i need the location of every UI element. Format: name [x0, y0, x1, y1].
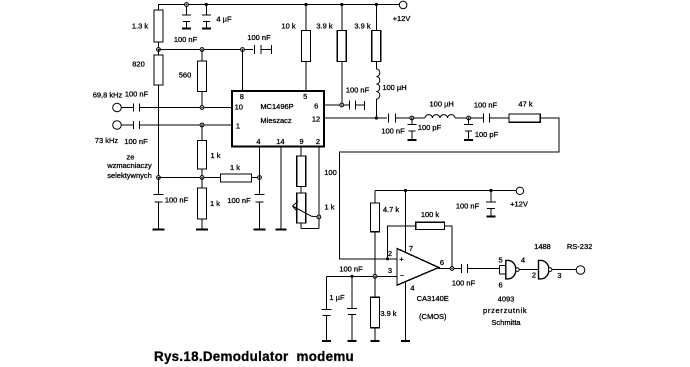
capacitor 100nF node B right to ground	[259, 178, 261, 195]
resistor R 100k feedback	[388, 226, 416, 259]
capacitor 100nF series to 47k	[471, 117, 484, 119]
svg-text:4: 4	[256, 137, 260, 146]
svg-text:100 nF: 100 nF	[381, 126, 405, 135]
svg-text:MC1496P: MC1496P	[260, 102, 293, 111]
svg-text:1 k: 1 k	[210, 151, 220, 160]
svg-text:820: 820	[132, 60, 145, 69]
wire top +12V rail	[159, 5, 400, 50]
svg-text:8: 8	[240, 92, 244, 101]
svg-text:100 nF: 100 nF	[339, 265, 363, 274]
svg-text:14: 14	[276, 137, 284, 146]
svg-text:2: 2	[316, 137, 320, 146]
svg-text:4093: 4093	[498, 294, 515, 303]
capacitor 100nF supply to ground	[490, 191, 492, 203]
terminal input 69.8 kHz	[113, 103, 122, 112]
svg-text:RS-232: RS-232	[567, 242, 592, 251]
svg-text:4: 4	[410, 284, 414, 293]
junction node A top-left	[157, 48, 161, 52]
wire opamp output	[439, 268, 461, 270]
resistor R 820	[158, 50, 160, 56]
resistor R 3.9k first	[340, 3, 343, 6]
capacitor 100nF minus to ground	[351, 276, 353, 308]
wire input 1 to pin 10	[140, 107, 232, 109]
wire pin 12 row	[324, 117, 387, 119]
svg-text:6: 6	[440, 258, 444, 267]
wire node B row	[159, 177, 221, 179]
svg-text:Mieszacz: Mieszacz	[260, 116, 292, 125]
terminal input 73 kHz	[113, 121, 122, 130]
resistor R 1.3k	[154, 10, 163, 42]
junction on top rail left	[185, 3, 189, 7]
wire 47k to opamp + input	[340, 118, 560, 259]
svg-text:1.3 k: 1.3 k	[132, 22, 149, 31]
wire node A to pin8	[242, 50, 244, 92]
svg-text:100 nF: 100 nF	[452, 279, 476, 288]
resistor R 560	[201, 50, 203, 62]
junction node B mid	[200, 176, 204, 180]
svg-text:1: 1	[236, 122, 240, 131]
inductor L 100uH horizontal	[414, 117, 425, 119]
svg-text:4: 4	[521, 256, 525, 265]
capacitor 100nF series pin12	[388, 114, 390, 123]
wire pin 7 down	[405, 191, 407, 253]
wire pin 4 down	[259, 147, 261, 178]
junction node B right	[258, 176, 262, 180]
svg-text:73 kHz: 73 kHz	[95, 136, 119, 145]
op-amp U1 MC1496P box	[232, 91, 324, 147]
svg-text:100 nF: 100 nF	[456, 202, 480, 211]
svg-text:100 nF: 100 nF	[174, 35, 198, 44]
ground under pin 4	[401, 340, 410, 342]
svg-text:10: 10	[235, 103, 243, 112]
wire gate2 to RS232 terminal	[552, 269, 576, 271]
svg-text:wzmacniaczy: wzmacniaczy	[106, 161, 152, 170]
gate 4093 Schmitt NAND	[506, 260, 516, 279]
wire pin 6 row	[324, 104, 349, 106]
capacitor 100nF pin6 to ground	[349, 101, 351, 110]
svg-text:100 µH: 100 µH	[382, 83, 406, 92]
svg-text:4 µF: 4 µF	[216, 15, 232, 24]
svg-text:7: 7	[409, 244, 413, 253]
svg-text:1 k: 1 k	[210, 199, 220, 208]
terminal +12V top	[399, 1, 407, 9]
svg-text:5: 5	[499, 256, 503, 265]
resistor R 10k	[304, 3, 307, 6]
junction 4.7k 3.9k minus	[373, 274, 377, 278]
svg-text:100 nF: 100 nF	[346, 85, 370, 94]
junction wiper to pin2	[317, 215, 321, 219]
junction pin6 3.9k	[340, 103, 344, 107]
junction pin12 inductor	[375, 116, 378, 119]
junction feedback on + input	[386, 257, 389, 260]
svg-text:selektywnych: selektywnych	[107, 171, 152, 180]
svg-text:100 pF: 100 pF	[418, 123, 442, 132]
potentiometer P 1k	[297, 193, 306, 223]
svg-text:+: +	[399, 255, 404, 264]
svg-text:6: 6	[499, 281, 503, 290]
wire +12V rail 2	[375, 190, 516, 192]
svg-text:5: 5	[303, 92, 307, 101]
junction 1k to input 2	[200, 123, 204, 127]
capacitor 100pF second to ground	[468, 118, 470, 125]
junction rail2 pin7	[404, 189, 407, 192]
svg-text:−: −	[400, 271, 405, 280]
svg-text:100 nF: 100 nF	[247, 33, 271, 42]
svg-text:3: 3	[388, 266, 392, 275]
resistor R 4.7k	[374, 191, 376, 204]
svg-text:100 nF: 100 nF	[227, 196, 251, 205]
junction node B left	[157, 176, 161, 180]
resistor R 1k lower	[201, 178, 203, 189]
capacitor 100nF node A to ground	[241, 48, 245, 52]
junction on top rail 2	[205, 3, 208, 6]
wire minus input row	[326, 275, 396, 277]
svg-text:6: 6	[314, 102, 318, 111]
svg-text:1 k: 1 k	[230, 163, 240, 172]
junction 100nF minus	[350, 275, 353, 278]
svg-text:3.9 k: 3.9 k	[354, 22, 371, 31]
svg-text:100 k: 100 k	[421, 210, 440, 219]
svg-text:100 nF: 100 nF	[124, 137, 148, 146]
wire opamp pin 4 to ground	[404, 282, 406, 341]
svg-text:10 k: 10 k	[281, 22, 295, 31]
svg-text:12: 12	[312, 115, 320, 124]
capacitor 100nF input 2	[121, 124, 133, 126]
svg-text:(CMOS): (CMOS)	[419, 312, 447, 321]
junction filter node 2	[467, 116, 471, 120]
svg-text:560: 560	[179, 71, 192, 80]
junction 560 to input 1	[200, 106, 204, 110]
wire node A row	[159, 49, 254, 51]
svg-text:3.9 k: 3.9 k	[380, 309, 397, 318]
svg-text:9: 9	[299, 137, 303, 146]
svg-text:Rys.18.Demodulator modemu: Rys.18.Demodulator modemu	[154, 349, 354, 364]
capacitor 4uF bypass	[205, 5, 207, 16]
resistor R 100 pin 9	[300, 147, 302, 157]
wire pot bottom to pin 2	[301, 228, 319, 230]
svg-text:CA3140E: CA3140E	[417, 294, 449, 303]
svg-text:69,8 kHz: 69,8 kHz	[93, 90, 123, 99]
terminal +12V right	[516, 187, 523, 194]
svg-text:47 k: 47 k	[518, 100, 532, 109]
capacitor 100pF first to ground	[411, 118, 413, 125]
svg-text:przerzutnik: przerzutnik	[483, 306, 527, 315]
svg-text:3: 3	[557, 271, 561, 280]
svg-text:100 µH: 100 µH	[430, 100, 454, 109]
svg-text:4.7 k: 4.7 k	[383, 205, 400, 214]
resistor R 1k upper	[201, 125, 203, 141]
svg-text:Schmitta: Schmitta	[491, 318, 521, 327]
svg-text:+12V: +12V	[510, 200, 528, 209]
wire pin 2 down	[318, 147, 320, 229]
svg-text:+12V: +12V	[393, 14, 411, 23]
gate 1488 driver	[539, 260, 550, 279]
svg-text:1 µF: 1 µF	[329, 293, 345, 302]
junction rail2 cap	[489, 189, 492, 192]
svg-text:2: 2	[532, 271, 536, 280]
svg-text:100 pF: 100 pF	[475, 130, 499, 139]
wire pin 14 to ground	[280, 147, 282, 230]
op-amp U2 CA3140E	[397, 249, 439, 286]
resistor R 1k horizontal	[221, 174, 252, 182]
ground under 1k lower	[196, 229, 208, 231]
junction output	[450, 267, 454, 271]
resistor R 47k	[509, 114, 540, 123]
svg-text:100 nF: 100 nF	[474, 101, 498, 110]
svg-text:3.9 k: 3.9 k	[316, 22, 333, 31]
svg-text:1 k: 1 k	[324, 203, 334, 212]
capacitor 100nF bypass A	[186, 5, 188, 16]
capacitor 100nF output	[460, 264, 462, 273]
capacitor 100nF node B left to ground	[158, 178, 160, 195]
capacitor 100nF input 1	[121, 107, 133, 109]
resistor R 3.9k second	[375, 3, 378, 6]
svg-text:2: 2	[388, 249, 392, 258]
wire input 2 to pin 1	[140, 124, 232, 126]
inductor L 100uH vertical	[375, 62, 377, 70]
wire gate1 to gate2	[519, 269, 538, 271]
svg-text:100: 100	[324, 168, 337, 177]
junction filter node 1	[410, 116, 414, 120]
ground under pin 14	[275, 229, 286, 231]
svg-text:100 nF: 100 nF	[125, 89, 149, 98]
svg-text:100 nF: 100 nF	[165, 196, 189, 205]
capacitor 1uF to ground	[325, 276, 327, 309]
svg-text:1488: 1488	[534, 242, 551, 251]
junction node A - 560	[200, 48, 204, 52]
resistor R 3.9k bias	[374, 276, 376, 297]
pot wiper arrow	[293, 201, 318, 217]
terminal RS-232 out	[576, 266, 585, 275]
